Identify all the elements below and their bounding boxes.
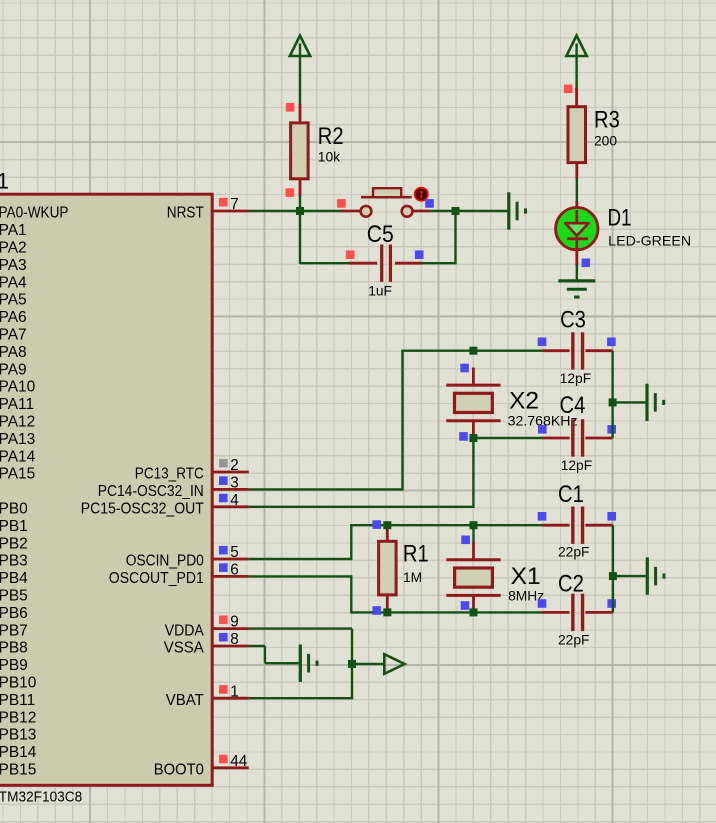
capacitor C1 xyxy=(571,507,574,544)
C3 right terminal marker xyxy=(607,338,616,347)
D1 bottom terminal marker xyxy=(582,259,591,268)
U1 pin 3 stub xyxy=(212,488,248,491)
junction NRST / C5 right xyxy=(452,207,460,215)
svg-text:PA7: PA7 xyxy=(0,327,27,344)
C1 left pin xyxy=(543,524,570,527)
junction X2 bottom xyxy=(469,434,477,442)
U1 pin 8 stub xyxy=(212,645,248,648)
svg-text:C1: C1 xyxy=(558,481,584,508)
wire power arrow to R3 xyxy=(575,56,577,90)
wire C5 right pin to corner xyxy=(422,262,456,264)
X2 top terminal marker xyxy=(460,364,469,373)
svg-text:PB14: PB14 xyxy=(0,744,37,761)
X2 bottom pin xyxy=(472,421,475,438)
U1 pin 1 stub xyxy=(212,697,248,700)
C2 left terminal marker xyxy=(538,599,547,608)
wire X1 top junction to pin xyxy=(472,525,474,543)
svg-text:PA4: PA4 xyxy=(0,274,27,291)
X2 bottom terminal marker xyxy=(459,432,468,441)
svg-text:PA10: PA10 xyxy=(0,379,36,396)
svg-text:STM32F103C8: STM32F103C8 xyxy=(0,788,82,805)
C2 right terminal marker xyxy=(607,599,616,608)
wire X1 top net xyxy=(350,524,543,526)
capacitor C2 xyxy=(571,594,574,631)
C4 right terminal marker xyxy=(607,425,616,434)
svg-text:PB2: PB2 xyxy=(0,535,28,552)
wire corner down to X1 bottom net xyxy=(350,575,352,612)
wire C3 right to C4 right xyxy=(611,351,613,438)
svg-text:PA2: PA2 xyxy=(0,240,27,257)
svg-text:PA9: PA9 xyxy=(0,361,27,378)
U1 pin 5 stub xyxy=(212,558,248,561)
C2 left pin xyxy=(542,611,569,614)
button right contact circle xyxy=(402,206,413,217)
svg-text:PB1: PB1 xyxy=(0,518,28,535)
wire R3 to D1 xyxy=(576,178,578,203)
marker right of button xyxy=(425,199,434,208)
svg-text:PB6: PB6 xyxy=(0,605,28,622)
wire corner up to X2 top net xyxy=(401,351,403,491)
svg-text:PB4: PB4 xyxy=(0,570,28,587)
wire U1 pin1 VBAT to corner xyxy=(249,697,353,699)
U1 pin 44 terminal marker xyxy=(219,755,228,764)
svg-text:C2: C2 xyxy=(558,571,584,598)
svg-text:PA12: PA12 xyxy=(0,414,35,431)
button cap xyxy=(373,188,401,197)
svg-text:D1: D1 xyxy=(608,205,632,232)
C5 right pin xyxy=(395,262,423,265)
U1 pin 7 terminal marker xyxy=(219,198,228,207)
svg-text:C4: C4 xyxy=(560,392,586,419)
resistor R1 xyxy=(379,541,397,595)
wire VDDA corner down to VBAT xyxy=(351,629,353,699)
wire U1 pin6 OSCOUT to corner xyxy=(249,575,351,577)
U1 pin 6 terminal marker xyxy=(219,563,228,572)
capacitor C4 xyxy=(571,419,574,456)
svg-text:R2: R2 xyxy=(318,123,344,150)
wire junction to output terminal arrow xyxy=(352,663,385,665)
svg-text:10k: 10k xyxy=(318,150,340,165)
svg-text:OSCIN_PD0: OSCIN_PD0 xyxy=(126,553,204,570)
svg-text:PC13_RTC: PC13_RTC xyxy=(135,466,204,483)
R1 bottom terminal marker xyxy=(372,606,381,615)
C5 left pin xyxy=(349,262,377,265)
svg-text:PA14: PA14 xyxy=(0,448,36,465)
D1 cathode pin xyxy=(575,247,578,266)
LED D1 circle xyxy=(556,208,598,250)
X1 top pin xyxy=(472,542,475,560)
R1 bottom pin xyxy=(386,595,389,613)
C5 right terminal marker xyxy=(415,250,424,259)
C1 right pin xyxy=(585,524,613,527)
svg-text:PB3: PB3 xyxy=(0,553,28,570)
svg-text:R3: R3 xyxy=(594,106,620,133)
svg-text:PA6: PA6 xyxy=(0,309,27,326)
junction X1 bottom xyxy=(470,608,478,616)
D1 diode triangle xyxy=(565,223,588,235)
ground (rotated) X1 group xyxy=(646,557,649,594)
wire U1 pin8 VSSA to corner xyxy=(249,645,265,647)
button left pin xyxy=(341,210,361,213)
wire U1 pin5 OSCIN to corner xyxy=(249,558,351,560)
wire junction to X1 ground xyxy=(613,575,646,577)
ground below D1 xyxy=(558,279,595,282)
svg-text:4: 4 xyxy=(230,492,239,509)
svg-text:PB9: PB9 xyxy=(0,657,28,674)
svg-text:PA3: PA3 xyxy=(0,257,27,274)
wire to C5 left pin xyxy=(300,262,350,264)
U1 pin 2 terminal marker xyxy=(219,459,228,468)
svg-text:X2: X2 xyxy=(509,387,539,414)
wire button to ground xyxy=(431,210,508,212)
U1 pin 3 terminal marker xyxy=(219,476,228,485)
wire junction to X2 ground xyxy=(613,401,646,403)
U1 pin 5 terminal marker xyxy=(219,546,228,555)
svg-text:BOOT0: BOOT0 xyxy=(154,762,204,779)
svg-text:C5: C5 xyxy=(367,221,394,248)
svg-text:PA5: PA5 xyxy=(0,292,27,309)
D1 cathode bar xyxy=(567,237,588,240)
R2 top terminal marker xyxy=(286,103,295,112)
junction R1 top xyxy=(383,521,391,529)
svg-text:R1: R1 xyxy=(403,541,429,568)
power terminal arrow above R2 xyxy=(290,36,310,57)
R3 top terminal marker xyxy=(564,85,573,94)
ground (rotated) VSSA xyxy=(299,645,302,682)
wire U1 pin9 VDDA to corner xyxy=(249,627,352,629)
R1 top pin xyxy=(386,525,389,541)
svg-text:9: 9 xyxy=(230,614,239,631)
output terminal arrow (right) xyxy=(384,654,404,674)
svg-text:PA0-WKUP: PA0-WKUP xyxy=(0,205,69,222)
button actuator bar xyxy=(361,196,412,199)
svg-text:PB10: PB10 xyxy=(0,675,37,692)
IC U1 STM32F103C8 body xyxy=(0,194,212,785)
capacitor C3 xyxy=(571,332,574,369)
D1 anode pin xyxy=(575,202,578,211)
junction X2 ground net xyxy=(609,398,617,406)
crystal X2 xyxy=(446,384,500,387)
resistor R2 xyxy=(291,123,309,179)
R2 top pin xyxy=(299,104,302,124)
svg-text:1uF: 1uF xyxy=(368,284,392,299)
junction VDDA/VBAT/terminal xyxy=(348,660,356,668)
wire VSSA corner down xyxy=(264,646,266,663)
junction X2 top xyxy=(469,347,477,355)
svg-text:PB0: PB0 xyxy=(0,501,28,518)
wire corner up to X1 top net xyxy=(350,525,352,560)
C3 left pin xyxy=(543,349,570,352)
C3 left terminal marker xyxy=(538,338,547,347)
svg-text:8: 8 xyxy=(230,631,239,648)
svg-text:VBAT: VBAT xyxy=(166,692,205,709)
R2 bottom pin xyxy=(299,179,302,197)
X1 bottom pin xyxy=(472,595,475,612)
svg-text:PC15-OSC32_OUT: PC15-OSC32_OUT xyxy=(81,501,204,518)
svg-text:PB15: PB15 xyxy=(0,762,36,779)
svg-text:2: 2 xyxy=(230,457,239,474)
svg-text:PB5: PB5 xyxy=(0,588,28,605)
C3 right pin xyxy=(585,349,612,352)
U1 pin 2 stub xyxy=(212,471,248,474)
wire corner up to NRST junction xyxy=(454,211,456,264)
ground (rotated) X2 group xyxy=(645,384,648,421)
svg-text:1: 1 xyxy=(230,683,239,700)
R3 bottom pin xyxy=(575,163,578,179)
svg-text:U1: U1 xyxy=(0,169,9,194)
svg-text:200: 200 xyxy=(594,134,617,149)
C4 right pin xyxy=(585,437,612,440)
U1 pin 4 stub xyxy=(212,505,248,508)
power terminal arrow above R3 xyxy=(566,36,586,57)
svg-text:PB11: PB11 xyxy=(0,692,35,709)
U1 pin 1 terminal marker xyxy=(219,685,228,694)
svg-text:22pF: 22pF xyxy=(558,545,589,560)
button right pin xyxy=(412,210,430,213)
svg-text:6: 6 xyxy=(230,562,239,579)
svg-text:5: 5 xyxy=(230,544,239,561)
junction X1 ground net xyxy=(609,572,617,580)
button left contact circle xyxy=(361,206,372,217)
R3 top pin xyxy=(575,88,578,108)
svg-text:VSSA: VSSA xyxy=(164,640,205,657)
svg-text:12pF: 12pF xyxy=(561,458,592,473)
U1 pin 7 stub xyxy=(212,210,248,213)
svg-text:C3: C3 xyxy=(560,306,586,333)
svg-text:12pF: 12pF xyxy=(560,371,591,386)
C5 left terminal marker xyxy=(346,250,355,259)
svg-text:PB12: PB12 xyxy=(0,709,36,726)
crystal X1 xyxy=(446,558,500,561)
svg-text:PB7: PB7 xyxy=(0,622,28,639)
wire R2 bottom to NRST net xyxy=(299,195,301,211)
capacitor C5 xyxy=(380,245,383,282)
svg-text:PA1: PA1 xyxy=(0,222,27,239)
U1 pin 44 stub xyxy=(212,766,248,769)
wire junction down to C5 left xyxy=(299,211,301,264)
junction X1 top xyxy=(470,521,478,529)
wire D1 to ground xyxy=(576,264,578,281)
C1 right terminal marker xyxy=(607,512,616,521)
C4 left pin xyxy=(542,437,569,440)
resistor R3 xyxy=(568,107,586,163)
U1 pin 9 terminal marker xyxy=(219,616,228,625)
C4 left terminal marker xyxy=(538,425,547,434)
D1 internal lead xyxy=(575,210,578,223)
R1 top terminal marker xyxy=(372,520,381,529)
wire X2 top net xyxy=(401,350,543,352)
wire U1 pin4 PC15 to corner xyxy=(249,506,474,508)
svg-text:PC14-OSC32_IN: PC14-OSC32_IN xyxy=(98,483,204,500)
svg-text:PA13: PA13 xyxy=(0,431,35,448)
svg-text:LED-GREEN: LED-GREEN xyxy=(608,234,691,249)
C1 left terminal marker xyxy=(538,512,547,521)
U1 pin 9 stub xyxy=(212,627,248,630)
svg-text:44: 44 xyxy=(230,753,248,770)
svg-text:PA15: PA15 xyxy=(0,466,35,483)
marker left of button xyxy=(337,199,346,208)
X1 top terminal marker xyxy=(461,536,470,545)
X2 top pin xyxy=(472,368,475,386)
wire U1 NRST pin to junction xyxy=(249,210,341,212)
svg-text:OSCOUT_PD1: OSCOUT_PD1 xyxy=(109,570,204,587)
svg-text:PA8: PA8 xyxy=(0,344,27,361)
wire VSSA to ground xyxy=(265,662,299,664)
X1 bottom terminal marker xyxy=(461,601,470,610)
button interactive red dot xyxy=(415,188,428,201)
R2 bottom terminal marker xyxy=(286,188,295,197)
svg-text:7: 7 xyxy=(230,196,239,213)
wire U1 pin3 PC14 to corner xyxy=(249,488,403,490)
wire X2 bottom net xyxy=(473,437,543,439)
svg-text:3: 3 xyxy=(230,475,239,492)
svg-text:NRST: NRST xyxy=(167,205,204,222)
svg-text:X1: X1 xyxy=(511,563,541,590)
svg-text:1M: 1M xyxy=(403,570,422,585)
U1 pin 4 terminal marker xyxy=(219,494,228,503)
svg-text:PA11: PA11 xyxy=(0,396,34,413)
svg-text:PB13: PB13 xyxy=(0,727,36,744)
wire power arrow to R2 top xyxy=(299,56,301,106)
svg-text:PB8: PB8 xyxy=(0,640,28,657)
C2 right pin xyxy=(585,611,613,614)
wire corner up to X2 bottom junction xyxy=(472,438,474,508)
junction NRST / R2 / C5 xyxy=(296,207,304,215)
wire C1 right to C2 right xyxy=(612,525,614,612)
wire X1 bottom net xyxy=(350,611,543,613)
U1 pin 6 stub xyxy=(212,575,248,578)
ground (rotated) for NRST net xyxy=(507,192,510,229)
junction R1 bottom xyxy=(383,608,391,616)
U1 pin 8 terminal marker xyxy=(219,633,228,642)
svg-text:VDDA: VDDA xyxy=(165,622,205,639)
svg-text:22pF: 22pF xyxy=(558,633,589,648)
